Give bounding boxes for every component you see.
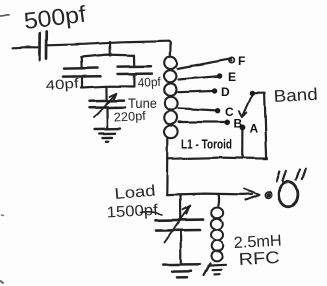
arrow output xyxy=(245,189,260,200)
tap C wire xyxy=(179,108,217,110)
capacitor 500pF input coupling xyxy=(39,32,46,60)
svg-text:A: A xyxy=(250,122,259,136)
node tap C dot xyxy=(215,108,220,113)
switch Band arm xyxy=(239,96,252,117)
speck bottom-left corner xyxy=(1,281,4,283)
inductor L1 toroid winding loops xyxy=(164,56,178,138)
tap A wire down to bus xyxy=(241,129,243,158)
wire left leg lower xyxy=(81,77,83,87)
capacitor Load 1500pF variable xyxy=(156,220,204,231)
tap B wire xyxy=(179,121,226,123)
wire junction drop to 40pF pair xyxy=(109,42,112,56)
svg-text:F: F xyxy=(238,54,245,68)
wire load cap to ground xyxy=(180,231,182,263)
wire RFC drop xyxy=(217,195,220,207)
arrow of load variable capacitor xyxy=(165,206,190,242)
wire coil bottom to bus xyxy=(166,138,168,159)
node tap B dot xyxy=(224,120,230,126)
wire right leg lower xyxy=(133,75,135,87)
node tap D dot xyxy=(212,88,217,93)
svg-text:B: B xyxy=(234,117,243,131)
inductor RFC 2.5mH loops xyxy=(211,208,223,261)
svg-text:Band: Band xyxy=(273,85,318,106)
svg-text:D: D xyxy=(221,85,230,99)
wire left leg xyxy=(80,57,82,68)
speck left edge mid xyxy=(2,214,4,217)
wire tune drop xyxy=(105,86,107,100)
arrow of tune variable capacitor xyxy=(94,93,116,117)
flourish of 1500pF label crossing toward plate xyxy=(141,212,162,215)
ground RFC xyxy=(204,264,227,276)
tap E wire xyxy=(179,76,219,79)
ground tune xyxy=(95,129,120,142)
tap F wire xyxy=(178,59,232,69)
wire bottom rail of 40pF pair xyxy=(81,86,134,87)
wire top rail of 40pF pair xyxy=(81,55,134,57)
wire left rail to output wire xyxy=(166,159,169,195)
label O output circle xyxy=(279,182,298,207)
svg-text:220pf: 220pf xyxy=(113,109,146,125)
wire input left xyxy=(13,46,38,49)
wire right rail down xyxy=(265,93,267,158)
quote marks right of O xyxy=(296,169,306,181)
svg-text:RFC: RFC xyxy=(238,248,280,269)
svg-text:Load: Load xyxy=(114,182,156,203)
wire output bottom xyxy=(167,194,252,195)
wire top bus xyxy=(47,41,168,45)
svg-text:40pf: 40pf xyxy=(137,75,161,90)
node switch pivot dot xyxy=(250,91,255,96)
svg-text:L1 - Toroid: L1 - Toroid xyxy=(181,137,232,152)
speck top-left edge xyxy=(0,14,9,17)
wire tune to ground xyxy=(106,109,108,129)
capacitor 40pF left xyxy=(63,68,101,77)
tap D wire xyxy=(179,91,214,92)
svg-text:E: E xyxy=(228,70,236,84)
wire bus under L1 box xyxy=(167,158,267,159)
wire top corner into coil xyxy=(168,41,171,56)
node tap F dot xyxy=(229,57,234,62)
ground load xyxy=(163,264,200,277)
node output terminal bullseye xyxy=(265,192,272,199)
svg-text:1500pf: 1500pf xyxy=(106,202,159,222)
wire load cap drop xyxy=(179,195,181,219)
wire right leg xyxy=(133,55,135,65)
wire switch pivot to right rail xyxy=(254,92,264,94)
node tap E dot xyxy=(217,73,222,78)
svg-text:40pf: 40pf xyxy=(45,76,79,93)
quote marks left of O xyxy=(277,171,287,182)
node tap A dot xyxy=(240,125,246,131)
capacitor 40pF right xyxy=(118,66,153,74)
capacitor Tune 220pF variable xyxy=(90,101,126,108)
